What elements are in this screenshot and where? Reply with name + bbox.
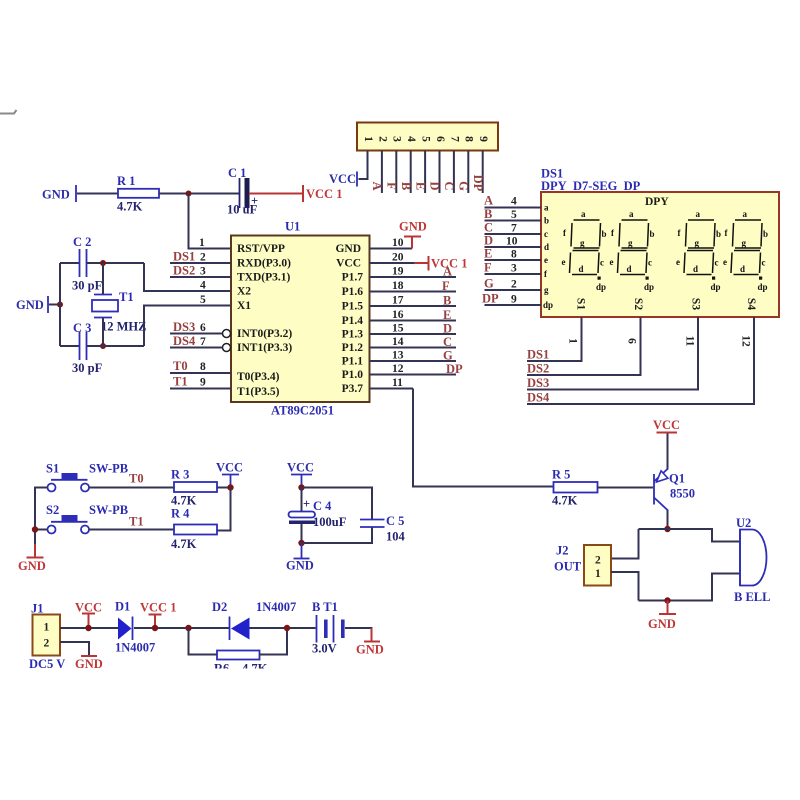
svg-text:12 MHZ: 12 MHZ: [101, 320, 146, 334]
node C4 bottom junction: [298, 540, 304, 546]
svg-text:U2: U2: [736, 516, 751, 530]
node switches gnd junction: [32, 526, 38, 532]
svg-text:T1: T1: [129, 515, 144, 529]
svg-text:d: d: [544, 242, 549, 252]
svg-text:P1.2: P1.2: [342, 342, 364, 354]
svg-text:c: c: [715, 258, 719, 268]
svg-text:VCC 1: VCC 1: [140, 601, 176, 615]
svg-text:3: 3: [511, 263, 517, 275]
svg-text:g: g: [742, 238, 747, 248]
svg-text:T0: T0: [173, 359, 188, 373]
resistor R5: [552, 468, 598, 508]
svg-text:P3.7: P3.7: [342, 383, 364, 395]
wire header pin4, net B: [399, 151, 413, 194]
wire J1 pin2 to GND: [60, 642, 89, 655]
svg-text:4.7K: 4.7K: [171, 494, 197, 508]
power VCC1 (pin20, red port): [414, 256, 467, 271]
pin 20 VCC wire: [336, 252, 414, 270]
svg-text:e: e: [723, 257, 727, 267]
pin 9 T1 wire: [170, 375, 280, 399]
ground GND (switches, red power): [18, 544, 46, 573]
wire bottom branch to C3: [60, 345, 79, 347]
svg-text:S3: S3: [689, 298, 701, 310]
svg-text:T0(P3.4): T0(P3.4): [237, 371, 280, 383]
wire X2 connection: [144, 263, 231, 291]
wire VCC rail down to R4: [217, 488, 231, 531]
svg-text:e: e: [610, 257, 614, 267]
svg-text:A: A: [370, 181, 384, 190]
svg-text:DS1: DS1: [527, 348, 549, 362]
power VCC (C4, blue port): [287, 461, 314, 488]
wire C4 bottom lead: [301, 524, 303, 543]
svg-text:DS2: DS2: [527, 362, 549, 376]
svg-text:P1.4: P1.4: [342, 315, 364, 327]
svg-text:RST/VPP: RST/VPP: [237, 243, 285, 255]
svg-text:6: 6: [625, 338, 637, 344]
wire C4 top to C5: [302, 488, 373, 520]
svg-text:11: 11: [392, 377, 403, 389]
svg-text:X1: X1: [237, 300, 251, 312]
svg-text:18: 18: [392, 280, 404, 292]
svg-text:b: b: [763, 229, 768, 239]
connector J2 OUT: [554, 544, 611, 586]
wire C3 to X1 corner: [87, 345, 144, 347]
svg-text:T1(P3.5): T1(P3.5): [237, 386, 280, 398]
power VCC (R3, blue port): [216, 461, 243, 488]
svg-text:B: B: [399, 182, 413, 190]
7-segment digit 3: [676, 209, 721, 292]
pin 10 GND wire: [335, 237, 412, 255]
resistor R1: [117, 174, 159, 214]
svg-text:3.0V: 3.0V: [312, 642, 337, 656]
svg-text:T1: T1: [173, 375, 188, 389]
svg-text:3: 3: [391, 136, 403, 142]
svg-text:3: 3: [200, 266, 206, 278]
svg-text:16: 16: [392, 309, 404, 321]
wire S2 to T1/R4: [89, 515, 174, 530]
wire R3 to VCC rail: [217, 487, 231, 489]
wire S1 to T0/R3: [89, 472, 174, 488]
svg-text:2: 2: [44, 638, 50, 650]
battery BT1 3.0V: [312, 600, 345, 656]
svg-text:c: c: [600, 258, 604, 268]
svg-text:8550: 8550: [670, 487, 695, 501]
svg-text:e: e: [676, 257, 680, 267]
svg-text:GND: GND: [16, 298, 44, 312]
switch S1 SW-PB: [46, 462, 128, 492]
svg-text:6: 6: [200, 322, 206, 334]
svg-text:D: D: [443, 322, 452, 336]
pin 3 TXD wire: [170, 264, 291, 284]
svg-text:4.7K: 4.7K: [552, 494, 578, 508]
wire display S4 to DS4, pin 12: [527, 317, 754, 405]
svg-text:P1.0: P1.0: [342, 369, 364, 381]
svg-text:7: 7: [448, 136, 460, 142]
svg-text:a: a: [743, 209, 748, 219]
capacitor C4 100uF: [289, 497, 347, 529]
svg-text:G: G: [457, 181, 471, 191]
svg-text:TXD(P3.1): TXD(P3.1): [237, 272, 291, 284]
svg-text:DS3: DS3: [527, 376, 549, 390]
svg-text:GND: GND: [42, 188, 70, 202]
transistor Q1 8550: [654, 469, 695, 511]
wire crystal to bottom junction: [102, 318, 104, 347]
svg-text:g: g: [628, 238, 633, 248]
pin 5 X1: [200, 294, 251, 312]
node VCC/R3 junction: [227, 484, 233, 490]
resistor R4: [171, 507, 217, 552]
svg-text:F: F: [442, 279, 450, 293]
svg-text:d: d: [579, 264, 584, 274]
wire S1 left to ground rail: [35, 488, 48, 530]
wire GND to crystal rail: [49, 304, 60, 306]
svg-text:DS3: DS3: [173, 320, 195, 334]
pin 13 P1.1 wire, net G: [342, 349, 456, 368]
ground GND (bell, red power): [648, 601, 676, 632]
svg-text:P1.6: P1.6: [342, 286, 364, 298]
svg-text:9: 9: [511, 294, 517, 306]
display pin C 7 wire: [484, 221, 548, 240]
pin 11 P3.7 wire: [342, 377, 413, 395]
svg-text:J2: J2: [556, 544, 569, 558]
svg-text:4: 4: [200, 280, 206, 292]
wire display S3 to DS3, pin 11: [527, 317, 698, 390]
svg-text:g: g: [580, 238, 585, 248]
svg-text:GND: GND: [648, 617, 676, 631]
svg-text:GND: GND: [399, 220, 427, 234]
svg-text:c: c: [648, 258, 652, 268]
display pin E 8 wire: [484, 247, 548, 266]
svg-text:2: 2: [511, 279, 517, 291]
pin 1 RST/VPP: [199, 237, 285, 255]
svg-text:SW-PB: SW-PB: [89, 503, 128, 517]
svg-text:D2: D2: [212, 600, 227, 614]
svg-text:GND: GND: [356, 643, 384, 657]
wire top junction down to crystal: [102, 263, 104, 295]
svg-text:d: d: [627, 264, 632, 274]
svg-text:c: c: [762, 258, 766, 268]
svg-text:C: C: [484, 221, 493, 235]
svg-text:P1.7: P1.7: [342, 272, 364, 284]
pin 15 P1.3 wire, net D: [342, 322, 456, 341]
svg-text:R 5: R 5: [552, 468, 570, 482]
display pin F 3 wire: [484, 261, 548, 280]
connector J1 DC5V: [29, 602, 65, 672]
capacitor C5 104: [360, 514, 406, 544]
svg-text:S2: S2: [46, 503, 59, 517]
ground GND (crystal, blue port): [16, 296, 48, 313]
power VCC (Q1, red power): [653, 418, 680, 433]
wire D2 to battery: [250, 627, 316, 629]
svg-text:C 3: C 3: [73, 321, 91, 335]
svg-text:VCC: VCC: [653, 418, 680, 432]
svg-text:GND: GND: [75, 657, 103, 671]
svg-text:E: E: [443, 308, 451, 322]
svg-text:10: 10: [392, 237, 404, 249]
node collector junction: [664, 526, 670, 532]
svg-text:C 4: C 4: [313, 499, 332, 513]
svg-text:dp: dp: [711, 282, 721, 292]
wire R1 to C1: [159, 193, 239, 195]
svg-text:2: 2: [595, 555, 601, 567]
svg-text:C: C: [443, 335, 452, 349]
svg-text:a: a: [581, 209, 586, 219]
node VCC1 junction: [152, 625, 158, 631]
svg-text:a: a: [544, 203, 549, 213]
svg-text:R 3: R 3: [171, 468, 189, 482]
svg-text:2: 2: [376, 136, 388, 142]
svg-text:RXD(P3.0): RXD(P3.0): [237, 258, 291, 270]
svg-text:T0: T0: [129, 472, 144, 486]
wire C4 bottom to C5: [302, 527, 373, 543]
svg-text:INT1(P3.3): INT1(P3.3): [237, 342, 292, 354]
svg-text:GND: GND: [18, 559, 46, 573]
svg-text:D: D: [484, 234, 493, 248]
svg-text:DP: DP: [446, 362, 463, 376]
svg-text:C 5: C 5: [386, 514, 404, 528]
power VCC1 (reset, red port): [303, 185, 342, 202]
svg-text:c: c: [544, 229, 548, 239]
svg-text:DS2: DS2: [173, 264, 195, 278]
svg-text:B: B: [484, 207, 492, 221]
svg-text:E: E: [413, 182, 427, 190]
svg-text:g: g: [544, 285, 549, 295]
node crystal bottom junction: [100, 343, 106, 349]
svg-text:g: g: [695, 238, 700, 248]
svg-text:5: 5: [419, 136, 431, 142]
svg-text:S1: S1: [574, 298, 586, 310]
wire J1 pin1 to D1: [60, 627, 118, 629]
pin 4 X2: [200, 280, 251, 298]
svg-text:1N4007: 1N4007: [115, 641, 155, 655]
crystal T1 12MHZ: [92, 290, 146, 334]
pin 8 T0 wire: [170, 359, 280, 383]
capacitor C1: [227, 166, 258, 217]
svg-text:F: F: [385, 182, 399, 190]
svg-text:30 pF: 30 pF: [72, 361, 103, 375]
svg-text:dp: dp: [758, 282, 768, 292]
svg-text:VCC 1: VCC 1: [306, 187, 342, 201]
pin 14 P1.2 wire, net C: [342, 335, 456, 354]
svg-text:C 1: C 1: [228, 166, 246, 180]
svg-text:b: b: [716, 229, 721, 239]
svg-text:13: 13: [392, 350, 404, 362]
wire Q1 collector down: [667, 510, 669, 529]
svg-text:DS1: DS1: [173, 250, 195, 264]
svg-text:T1: T1: [119, 290, 134, 304]
svg-text:DP: DP: [482, 292, 499, 306]
svg-text:8: 8: [200, 361, 206, 373]
ground GND (J1, red power): [75, 656, 103, 671]
svg-text:19: 19: [392, 266, 404, 278]
svg-text:1: 1: [566, 338, 578, 344]
display pin DP 9 wire: [482, 292, 553, 311]
svg-text:9: 9: [200, 377, 206, 389]
svg-text:4: 4: [405, 136, 417, 142]
svg-text:9: 9: [477, 136, 489, 142]
wire header pin2, net A: [370, 151, 384, 194]
svg-text:10: 10: [506, 236, 518, 248]
wire C1 to VCC1 (red): [249, 193, 303, 195]
photo artifact line top-left: [0, 110, 17, 114]
svg-text:DPY: DPY: [645, 196, 669, 208]
wire J2 pin2 link: [611, 529, 639, 559]
wire X1 connection: [144, 306, 231, 347]
svg-text:a: a: [696, 209, 701, 219]
svg-text:8: 8: [463, 136, 475, 142]
wire Q1 emitter to VCC: [667, 433, 669, 469]
wire top branch to C2: [60, 262, 79, 264]
svg-text:U1: U1: [285, 220, 300, 234]
display pin A 4 wire: [484, 194, 549, 213]
node D2 left junction: [185, 625, 191, 631]
svg-text:D1: D1: [115, 600, 130, 614]
7-segment digit 2: [610, 209, 655, 292]
svg-text:B: B: [443, 294, 451, 308]
resistor R6 bypass: [214, 651, 268, 676]
svg-text:dp: dp: [596, 282, 606, 292]
wire header pin7, net C: [442, 151, 456, 194]
svg-text:2: 2: [200, 252, 206, 264]
wire junction down to U1 pin 1: [189, 194, 232, 249]
svg-text:VCC: VCC: [75, 601, 102, 615]
display pin G 2 wire: [484, 277, 549, 296]
node bell gnd junction: [664, 597, 670, 603]
svg-text:GND: GND: [335, 243, 361, 255]
svg-text:INT0(P3.2): INT0(P3.2): [237, 328, 292, 340]
power VCC (J1, red power): [75, 601, 102, 629]
diode D1 1N4007: [115, 600, 155, 655]
svg-text:d: d: [740, 264, 745, 274]
svg-text:G: G: [484, 277, 494, 291]
svg-text:20: 20: [392, 252, 404, 264]
svg-text:B ELL: B ELL: [734, 590, 770, 604]
ground GND (battery, red power): [356, 628, 384, 657]
pin 19 P1.7 wire, net A: [342, 265, 456, 284]
svg-text:d: d: [693, 264, 698, 274]
buzzer U2 BELL: [734, 516, 770, 604]
node crystal gnd junction: [57, 302, 63, 308]
svg-text:A: A: [484, 194, 493, 208]
svg-text:e: e: [544, 255, 548, 265]
power VCC (header, blue port): [329, 172, 357, 187]
svg-text:R 4: R 4: [171, 507, 190, 521]
svg-text:G: G: [443, 349, 453, 363]
svg-text:b: b: [650, 229, 655, 239]
connector JP top header: [357, 123, 498, 151]
svg-text:DS4: DS4: [173, 334, 196, 348]
display pin B 5 wire: [484, 207, 549, 226]
wire D1 to VCC1/D2: [134, 627, 230, 629]
wire J2 pin1 link: [611, 572, 639, 601]
svg-text:dp: dp: [543, 300, 553, 310]
svg-text:5: 5: [200, 294, 206, 306]
svg-text:X2: X2: [237, 286, 251, 298]
svg-text:104: 104: [386, 530, 406, 544]
svg-text:15: 15: [392, 323, 404, 335]
wire C2 to X2 corner: [87, 262, 144, 264]
wire header pin8, net G: [457, 151, 471, 194]
svg-text:17: 17: [392, 295, 404, 307]
svg-text:6: 6: [434, 136, 446, 142]
svg-text:14: 14: [392, 336, 404, 348]
wire crystal left rail: [59, 263, 61, 346]
svg-text:F: F: [484, 261, 492, 275]
7-segment digit 4: [723, 209, 768, 292]
capacitor C3: [72, 321, 103, 375]
svg-text:1: 1: [595, 568, 601, 580]
wire bell top run: [639, 529, 741, 542]
svg-text:1: 1: [44, 622, 50, 634]
wire GND to R1: [77, 193, 118, 195]
wire R5 to Q1 base: [598, 487, 654, 489]
svg-text:D: D: [428, 181, 442, 190]
display pin D 10 wire: [484, 234, 549, 253]
svg-text:A: A: [443, 265, 452, 279]
svg-text:b: b: [602, 229, 607, 239]
svg-text:DS4: DS4: [527, 391, 550, 405]
wire display S1 to DS1, pin 1: [527, 317, 582, 362]
svg-text:1: 1: [362, 136, 374, 142]
svg-text:C 2: C 2: [73, 235, 91, 249]
svg-text:S4: S4: [745, 298, 757, 310]
svg-text:GND: GND: [286, 559, 314, 573]
svg-text:1N4007: 1N4007: [256, 600, 296, 614]
svg-text:DC5 V: DC5 V: [29, 657, 65, 671]
capacitor C2: [72, 235, 103, 293]
svg-text:4.7K: 4.7K: [171, 537, 197, 551]
op-amp U1 AT89C2051 body: [231, 220, 370, 418]
ground GND (reset, blue port): [42, 185, 76, 202]
svg-text:J1: J1: [31, 602, 44, 616]
svg-text:C: C: [442, 181, 456, 190]
svg-text:P1.5: P1.5: [342, 301, 364, 313]
wire bypass resistor right leg: [260, 628, 288, 655]
wire C4 top lead: [301, 488, 303, 512]
svg-text:S1: S1: [46, 462, 59, 476]
wire bypass resistor left leg: [189, 628, 218, 655]
svg-text:DPY_D7-SEG_DP: DPY_D7-SEG_DP: [541, 179, 641, 193]
pin 6 INT0 wire with bubble: [170, 320, 292, 340]
svg-text:12: 12: [392, 363, 404, 375]
svg-text:7: 7: [200, 336, 206, 348]
svg-text:11: 11: [683, 336, 695, 347]
pin 2 RXD wire: [170, 250, 291, 270]
svg-text:a: a: [629, 209, 634, 219]
node battery junction: [284, 625, 290, 631]
svg-text:VCC: VCC: [287, 461, 314, 475]
svg-text:5: 5: [511, 209, 517, 221]
svg-text:Q1: Q1: [669, 472, 685, 486]
power VCC1 (D1, red power): [140, 601, 176, 629]
svg-text:VCC: VCC: [329, 172, 356, 186]
display DS1 body: [541, 192, 779, 317]
resistor R3: [171, 468, 217, 508]
svg-text:dp: dp: [644, 282, 654, 292]
svg-text:b: b: [544, 216, 549, 226]
pin 17 P1.5 wire, net B: [342, 294, 456, 313]
svg-text:R 1: R 1: [117, 174, 135, 188]
node VCC/J1 junction: [85, 625, 91, 631]
svg-text:OUT: OUT: [554, 560, 582, 574]
svg-text:B T1: B T1: [312, 600, 338, 614]
svg-text:30 pF: 30 pF: [72, 279, 103, 293]
svg-text:+: +: [251, 194, 258, 208]
node VCC/C4 junction: [298, 484, 304, 490]
svg-text:8: 8: [511, 249, 517, 261]
wire header pin5, net E: [413, 151, 427, 194]
svg-text:4.7K: 4.7K: [117, 200, 143, 214]
